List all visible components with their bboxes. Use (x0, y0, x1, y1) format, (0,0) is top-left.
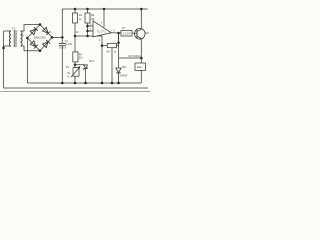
op-amp U1 (93, 9, 111, 37)
potentiometer P1 (71, 66, 80, 83)
wire emitter down (140, 39, 142, 63)
wire op-amp output (111, 32, 121, 34)
node op-amp noninverting tap (86, 25, 89, 28)
wire bottom line (4, 87, 149, 89)
wire divider down to rail (101, 36, 103, 83)
svg-text:KD: KD (145, 32, 149, 35)
svg-text:R7: R7 (122, 27, 126, 30)
capacitor C1 (59, 37, 66, 83)
node output junction (117, 32, 120, 35)
svg-text:MZ1: MZ1 (89, 61, 94, 63)
zener diode MZ (83, 65, 87, 83)
node junction on left input (2, 47, 5, 50)
svg-text:4,8V 500mA: 4,8V 500mA (128, 55, 141, 58)
node collector on rail (140, 8, 143, 11)
wire bridge plus to C1 node (52, 36, 62, 38)
node divider junction (86, 35, 89, 38)
svg-text:C1: C1 (65, 40, 69, 43)
wire divider horizontal (75, 35, 102, 37)
node divider bottom on rail (101, 82, 104, 85)
wire bridge minus down to 0V rail (26, 38, 28, 83)
resistor R4 (73, 52, 78, 68)
svg-text:R1: R1 (79, 14, 83, 17)
wire battery to diode horizontal (119, 57, 142, 59)
wire 0V rail (27, 82, 141, 84)
wire primary top lead (4, 30, 12, 32)
wire primary bottom lead (4, 45, 12, 47)
resistor R7 (121, 31, 135, 37)
node R8 tap on rail (111, 82, 114, 85)
wire to op-amp pin2 (88, 30, 94, 32)
battery akku box (135, 63, 146, 83)
svg-text:10k: 10k (91, 19, 96, 21)
node R8 left tap (101, 44, 104, 47)
svg-text:P1: P1 (66, 66, 70, 69)
transistor Q1 (135, 29, 146, 40)
node bridge bottom corner (39, 49, 42, 52)
wire output node down to VD1 (118, 33, 120, 68)
diode VD1 (116, 68, 121, 83)
svg-text:1k: 1k (114, 52, 117, 54)
svg-text:VD1: VD1 (122, 67, 127, 69)
node feedback riser junction (117, 42, 120, 45)
svg-text:R8: R8 (107, 52, 111, 54)
svg-text:7: 7 (101, 21, 103, 25)
wire collector riser (140, 9, 142, 29)
svg-text:B40C1500: B40C1500 (34, 37, 46, 40)
resistor R8 feedback (102, 33, 119, 48)
svg-text:2200uF: 2200uF (59, 48, 67, 50)
svg-text:akku: akku (137, 66, 143, 69)
svg-text:5k: 5k (68, 73, 71, 75)
wire secondary top lead (21, 25, 41, 32)
wire to op-amp pin3 (88, 25, 94, 27)
node op-amp supply on rail (103, 8, 106, 11)
svg-text:1k: 1k (79, 19, 82, 21)
svg-text:lin: lin (67, 76, 70, 78)
node battery top junction (140, 57, 143, 60)
separator rule under figure (0, 91, 150, 93)
svg-text:1N4007: 1N4007 (120, 75, 129, 77)
svg-text:R4: R4 (79, 54, 83, 57)
node op-amp inverting tap (86, 30, 89, 33)
wire top +V rail (62, 8, 147, 10)
node VD1 bottom on rail (117, 82, 120, 85)
node bridge right corner (51, 36, 54, 39)
wire R8 tap down to rail (111, 48, 113, 83)
node bridge left corner (26, 37, 29, 40)
transformer T1 (9, 30, 22, 47)
svg-text:2k2: 2k2 (79, 57, 83, 59)
node pot bottom on rail (74, 82, 77, 85)
wire to zener (75, 64, 86, 66)
svg-text:R2: R2 (91, 14, 95, 17)
svg-text:T1: T1 (12, 26, 16, 30)
svg-text:6: 6 (113, 28, 115, 32)
svg-text:9V: 9V (22, 35, 25, 37)
node R1 bottom junction (74, 35, 77, 38)
node R2 top on rail (86, 8, 89, 11)
svg-text:0-4,5V: 0-4,5V (66, 44, 73, 46)
svg-text:4: 4 (99, 38, 101, 42)
node bridge top corner (39, 23, 42, 26)
node C1 top (61, 36, 64, 39)
wire +V riser (61, 9, 63, 37)
diode D1 top-left of bridge (30, 27, 38, 35)
node C1 bottom on rail (61, 82, 64, 85)
diode D4 bottom-right of bridge (43, 40, 51, 48)
node zener bottom on rail (84, 82, 87, 85)
node pot top junction (74, 63, 77, 66)
resistor R1 (73, 9, 78, 36)
diode D3 bottom-left of bridge (30, 41, 38, 49)
wire left AC input vertical (3, 31, 5, 88)
wire secondary bottom lead (21, 46, 41, 51)
bridge rectifier diamond (27, 25, 52, 51)
svg-text:100R: 100R (123, 32, 131, 35)
diode D2 top-right of bridge (43, 27, 51, 35)
svg-text:TL071: TL071 (96, 30, 106, 33)
resistor R2 (85, 9, 90, 36)
wire R1 lead down to R4 (74, 36, 76, 52)
svg-text:10: 10 (76, 32, 79, 34)
node R1 top on rail (74, 8, 77, 11)
